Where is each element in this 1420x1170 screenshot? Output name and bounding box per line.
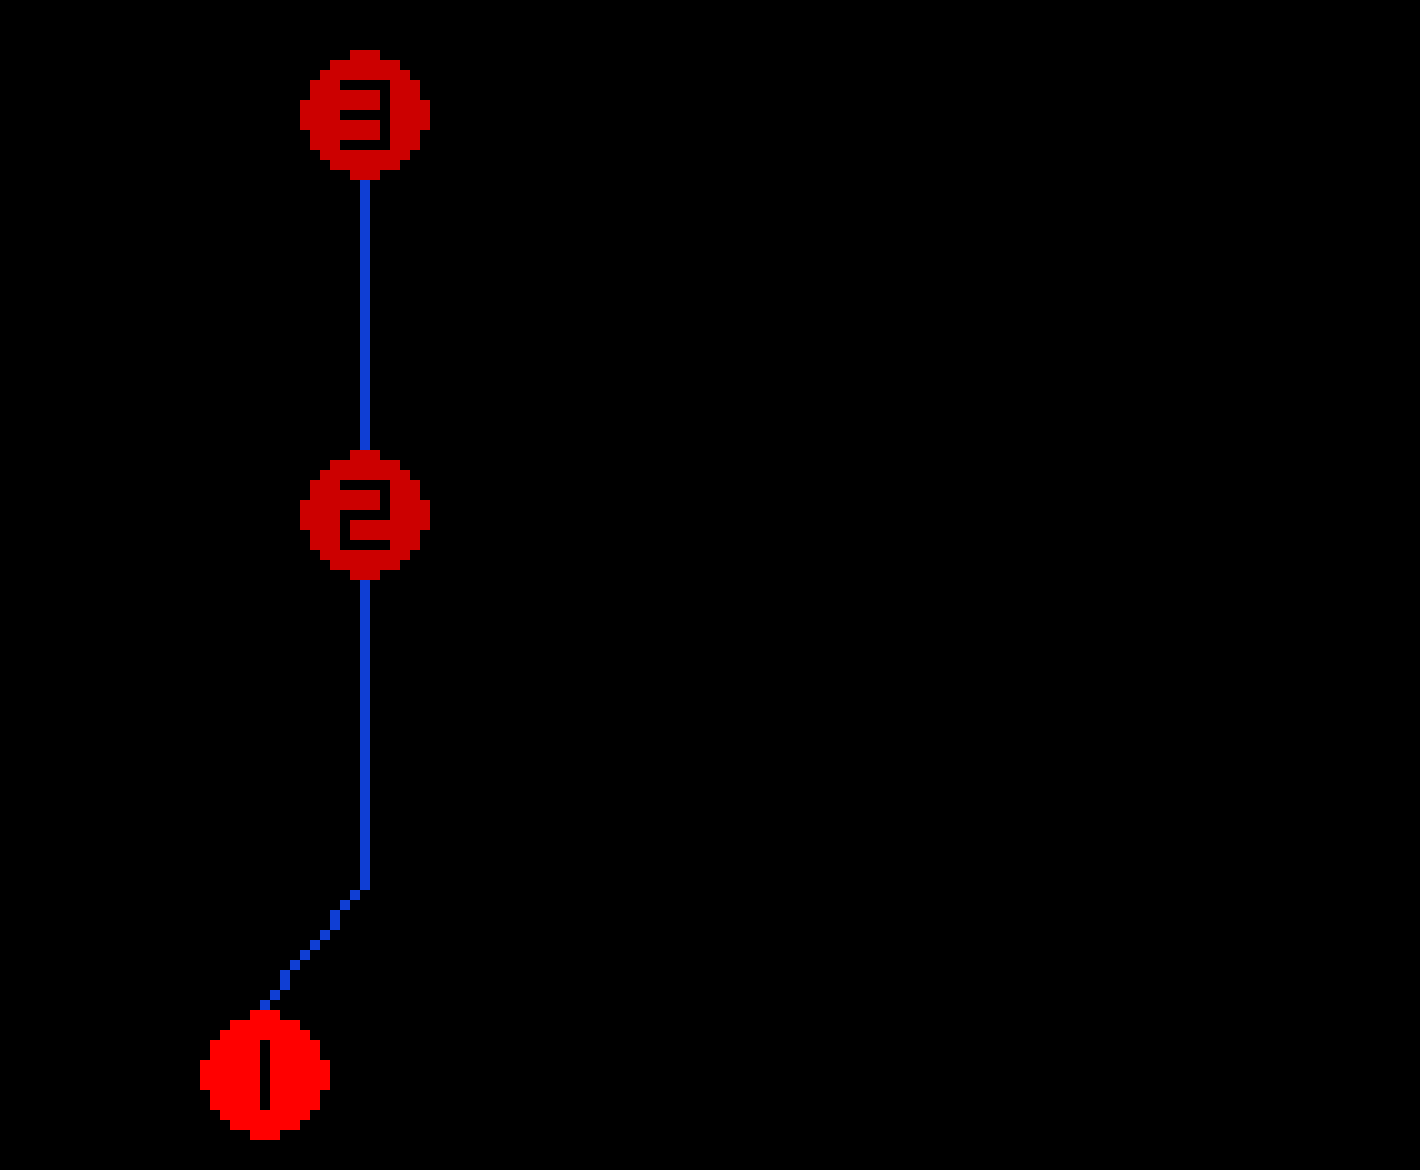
wire edge 3-2 (vertical blue segment) xyxy=(360,180,370,450)
digit 3 label of node 3 (black pixel glyph) xyxy=(340,80,390,150)
digit 2 label of node 2 (black pixel glyph) xyxy=(340,480,390,550)
wire edge 2-1 (vertical then staircase blue segment) xyxy=(260,580,370,1010)
node 1 (bright red pixel circle, center 265,1075) xyxy=(200,1010,330,1140)
digit 1 label of node 1 (black pixel glyph) xyxy=(260,1040,270,1110)
node 2 (dark red pixel circle, center 365,515) xyxy=(300,450,430,580)
node 3 (dark red pixel circle, center 365,115) xyxy=(300,50,430,180)
